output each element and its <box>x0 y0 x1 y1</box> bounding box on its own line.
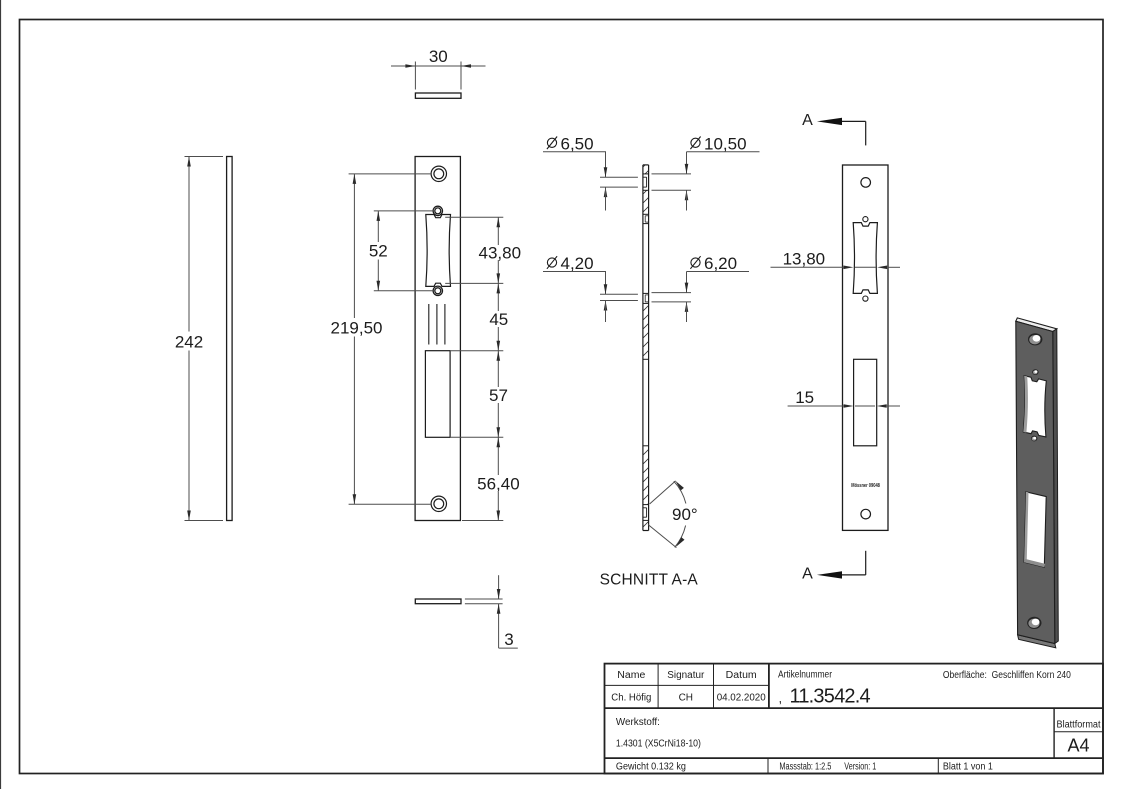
three marking lines <box>428 304 430 345</box>
svg-text:Ch. Höfig: Ch. Höfig <box>611 693 651 704</box>
title block outer border <box>605 664 1104 774</box>
bottom screw hole <box>431 496 446 511</box>
top screw hole <box>431 166 446 181</box>
iso bottom screw hole <box>1027 617 1041 629</box>
svg-text:4,20: 4,20 <box>561 254 594 273</box>
svg-text:Name: Name <box>617 670 645 681</box>
svg-text:13,80: 13,80 <box>783 249 826 268</box>
dimension 30 arrows <box>405 64 415 68</box>
svg-text:57: 57 <box>489 386 508 405</box>
svg-text:,: , <box>779 691 783 706</box>
top view strip <box>415 93 461 98</box>
small hole below cutout <box>863 296 868 301</box>
svg-text:45: 45 <box>489 310 508 329</box>
svg-text:6,50: 6,50 <box>561 134 594 153</box>
svg-text:Datum: Datum <box>726 670 757 681</box>
horizontal separator above bottom row <box>605 757 1104 759</box>
svg-text:56,40: 56,40 <box>477 475 520 494</box>
diameter 4,20 label <box>543 254 638 322</box>
iso front face <box>1016 321 1055 643</box>
extension line deadbolt top <box>451 350 504 352</box>
horizontal separator under name table <box>605 707 1104 709</box>
dimension 52 line <box>377 211 379 242</box>
vertical separator signatur/datum <box>713 664 715 709</box>
vertical separator datum/artikelnummer <box>768 664 770 709</box>
extension line cutout top <box>445 216 503 218</box>
thickness extension lines <box>465 598 503 600</box>
svg-text:43,80: 43,80 <box>479 244 522 263</box>
top screw hole section edges <box>643 173 649 175</box>
svg-text:A: A <box>802 566 813 583</box>
svg-text:SCHNITT A-A: SCHNITT A-A <box>600 572 699 589</box>
right dimension chain line <box>497 217 499 245</box>
extension line plate bottom <box>462 520 503 522</box>
dimension 219,50 extension lines <box>349 173 431 175</box>
svg-text:6,20: 6,20 <box>704 254 737 273</box>
svg-text:Gewicht 0.132 kg: Gewicht 0.132 kg <box>616 762 686 773</box>
svg-text:90°: 90° <box>672 505 698 524</box>
extension line deadbolt bottom <box>451 436 504 438</box>
svg-text:Artikelnummer: Artikelnummer <box>778 670 833 681</box>
right view plate outline <box>843 165 889 530</box>
svg-text:219,50: 219,50 <box>331 319 383 338</box>
dimension 30 extension lines <box>414 62 416 90</box>
deadbolt cutout <box>425 351 450 438</box>
svg-text:11.3542.4: 11.3542.4 <box>790 686 871 708</box>
dimension 15 <box>788 405 844 407</box>
section strip hatched segments <box>643 165 649 174</box>
svg-text:Werkstoff:: Werkstoff: <box>616 717 660 728</box>
svg-text:A: A <box>802 112 813 129</box>
extension line cutout bottom <box>445 282 503 284</box>
vertical separator name/signatur <box>657 664 659 709</box>
dimension 242 arrows <box>187 157 191 167</box>
svg-text:Signatur: Signatur <box>667 670 705 681</box>
small hole above cutout <box>863 217 868 222</box>
iso small hole below cutout <box>1031 436 1037 442</box>
bottom view strip <box>415 599 461 604</box>
iso right side face <box>1053 329 1059 644</box>
vertical separator blattformat box <box>1053 708 1055 758</box>
iso deadbolt bottom inner wall <box>1024 559 1045 567</box>
diameter 6,20 label <box>652 254 750 322</box>
svg-text:Blatt 1 von 1: Blatt 1 von 1 <box>943 762 993 773</box>
vertical separator bottom row 2 <box>937 758 939 773</box>
dimension 242 line <box>188 157 190 332</box>
iso top face sliver <box>1016 318 1057 332</box>
svg-text:52: 52 <box>369 242 388 261</box>
svg-text:242: 242 <box>175 333 203 352</box>
iso deadbolt left inner wall <box>1024 492 1028 563</box>
page edge line <box>0 0 2 789</box>
latch cutout <box>426 215 451 287</box>
dimension 13,80 <box>771 266 844 268</box>
svg-text:Oberfläche: Geschliffen Korn: Oberfläche: Geschliffen Korn 240 <box>943 670 1071 681</box>
iso bottom face sliver <box>1018 635 1056 648</box>
svg-text:10,50: 10,50 <box>704 134 747 153</box>
top screw hole <box>861 178 871 188</box>
bottom screw hole <box>861 509 871 519</box>
section strip outline <box>642 165 644 531</box>
small hole above latch cutout <box>433 206 442 215</box>
left side view strip <box>227 157 233 521</box>
latch cutout <box>853 223 877 294</box>
front view plate outline <box>415 157 460 521</box>
iso top screw hole <box>1028 333 1042 345</box>
iso small hole above cutout <box>1032 369 1038 375</box>
svg-text:Mössner 09048: Mössner 09048 <box>851 483 880 489</box>
dimension 3 arrows and leader <box>498 575 500 599</box>
deadbolt cutout <box>854 359 877 446</box>
lower small hole section edges <box>643 292 649 294</box>
dimension 52 extension lines <box>374 210 433 212</box>
horizontal separator name row <box>605 684 769 686</box>
dimension 30 line <box>391 65 486 67</box>
section arrow A bottom <box>865 551 867 575</box>
small hole below latch cutout <box>433 286 442 295</box>
deadbolt opening section edges <box>643 358 649 360</box>
svg-text:CH: CH <box>679 693 693 704</box>
svg-text:04.02.2020: 04.02.2020 <box>717 693 766 704</box>
chain arrows <box>497 217 501 227</box>
diameter 6,50 label <box>543 134 638 210</box>
horizontal separator blattformat <box>1054 731 1103 733</box>
bottom screw hole section edges <box>643 504 649 506</box>
svg-text:1.4301 (X5CrNi18-10): 1.4301 (X5CrNi18-10) <box>616 739 701 750</box>
vertical separator bottom row 1 <box>767 758 769 773</box>
svg-text:3: 3 <box>504 630 513 649</box>
dimension 242 extension lines <box>185 156 224 158</box>
svg-text:Version: 1: Version: 1 <box>844 762 876 773</box>
svg-text:A4: A4 <box>1067 736 1089 756</box>
upper small hole section edges <box>643 213 649 215</box>
90 degree angle note <box>648 479 698 548</box>
iso deadbolt cutout <box>1024 492 1046 567</box>
svg-text:30: 30 <box>429 47 448 66</box>
svg-text:Blattformat: Blattformat <box>1057 720 1101 731</box>
diameter 10,50 label <box>652 134 760 210</box>
svg-text:Massstab: 1:2.5: Massstab: 1:2.5 <box>779 762 831 773</box>
iso latch cutout <box>1023 376 1046 437</box>
svg-text:15: 15 <box>795 388 814 407</box>
iso latch cutout left inner wall <box>1023 376 1028 433</box>
dimension 219,50 line <box>353 174 355 318</box>
